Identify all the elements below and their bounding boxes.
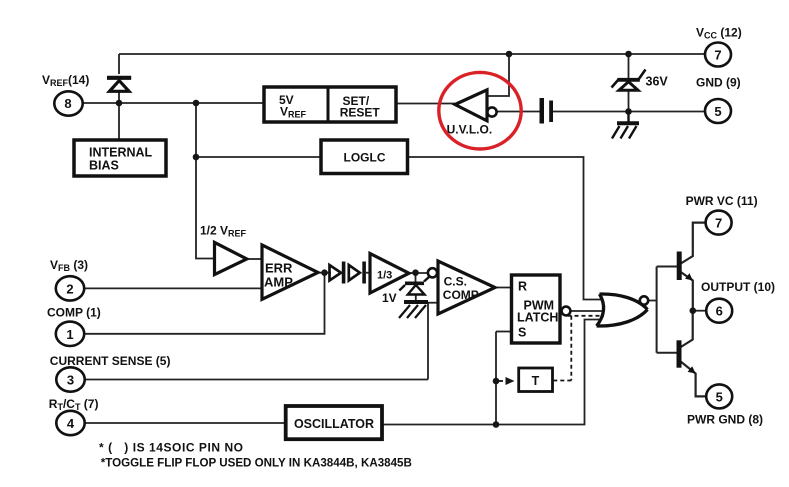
- svg-text:BIAS: BIAS: [89, 159, 119, 173]
- svg-text:VFB (3): VFB (3): [50, 258, 88, 273]
- svg-text:INTERNAL: INTERNAL: [89, 146, 153, 160]
- svg-text:2: 2: [66, 282, 73, 297]
- svg-text:1/2 VREF: 1/2 VREF: [200, 224, 247, 239]
- svg-text:S: S: [518, 326, 526, 340]
- svg-text:T: T: [532, 374, 540, 388]
- svg-text:CURRENT SENSE (5): CURRENT SENSE (5): [50, 354, 171, 368]
- svg-text:AMP: AMP: [264, 275, 293, 290]
- svg-text:*TOGGLE FLIP FLOP USED ONLY IN: *TOGGLE FLIP FLOP USED ONLY IN KA3844B, …: [101, 457, 412, 470]
- svg-text:5: 5: [714, 104, 721, 119]
- svg-text:LATCH: LATCH: [517, 311, 558, 325]
- svg-text:RT/CT (7): RT/CT (7): [49, 397, 99, 412]
- svg-text:U.V.L.O.: U.V.L.O.: [447, 123, 493, 137]
- svg-text:OUTPUT (10): OUTPUT (10): [701, 280, 775, 294]
- svg-text:VCC (12): VCC (12): [696, 26, 742, 41]
- svg-text:PWR GND (8): PWR GND (8): [687, 413, 763, 427]
- svg-text:1/3: 1/3: [377, 270, 392, 282]
- svg-text:7: 7: [714, 48, 721, 63]
- svg-text:ERR: ERR: [265, 261, 293, 276]
- svg-text:1: 1: [66, 327, 73, 342]
- svg-text:LOGLC: LOGLC: [344, 151, 386, 165]
- svg-text:5: 5: [716, 390, 723, 405]
- svg-text:GND (9): GND (9): [696, 76, 741, 90]
- svg-text:6: 6: [716, 304, 723, 319]
- svg-text:PWR VC (11): PWR VC (11): [686, 194, 758, 208]
- svg-text:8: 8: [64, 96, 71, 111]
- svg-text:7: 7: [715, 216, 722, 231]
- svg-text:1V: 1V: [382, 291, 397, 305]
- svg-text:4: 4: [67, 416, 75, 431]
- svg-text:R: R: [518, 280, 527, 294]
- svg-text:3: 3: [67, 373, 74, 388]
- svg-text:C.S.: C.S.: [444, 275, 467, 289]
- svg-text:COMP (1): COMP (1): [47, 306, 101, 320]
- svg-text:COMP: COMP: [443, 288, 479, 302]
- svg-text:VREF(14): VREF(14): [42, 73, 89, 88]
- svg-text:* ( ) IS 14SOIC PIN NO: * ( ) IS 14SOIC PIN NO: [99, 441, 244, 455]
- svg-text:OSCILLATOR: OSCILLATOR: [294, 417, 374, 431]
- svg-text:36V: 36V: [646, 75, 669, 89]
- svg-text:RESET: RESET: [340, 106, 381, 120]
